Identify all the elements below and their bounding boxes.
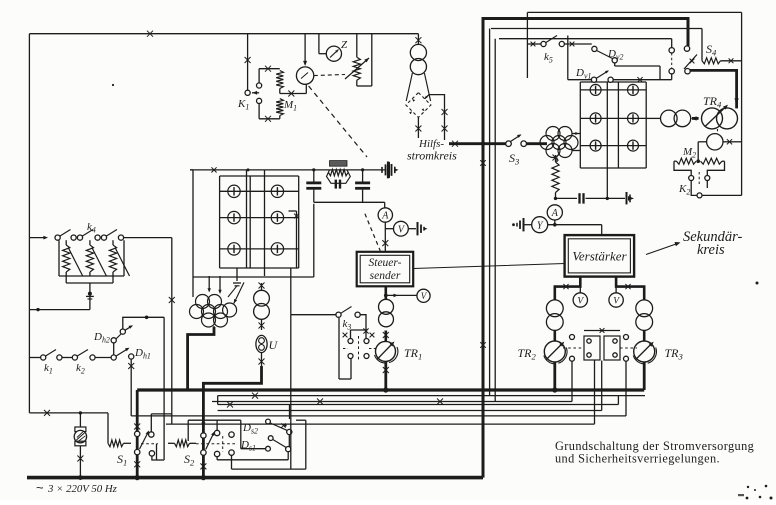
svg-text:A: A: [551, 208, 559, 219]
svg-text:Z: Z: [341, 39, 348, 51]
svg-text:A: A: [381, 211, 389, 222]
svg-text:3 × 220V 50 Hz: 3 × 220V 50 Hz: [47, 483, 118, 495]
svg-text:Steuer-: Steuer-: [369, 257, 402, 269]
svg-text:Verstärker: Verstärker: [572, 249, 627, 264]
svg-text:U: U: [269, 338, 279, 352]
svg-text:kreis: kreis: [697, 242, 725, 258]
svg-text:stromkreis: stromkreis: [407, 149, 457, 163]
svg-text:sender: sender: [370, 270, 401, 282]
svg-text:~: ~: [36, 480, 44, 495]
svg-text:und Sicherheitsverriegelungen.: und Sicherheitsverriegelungen.: [555, 452, 720, 466]
